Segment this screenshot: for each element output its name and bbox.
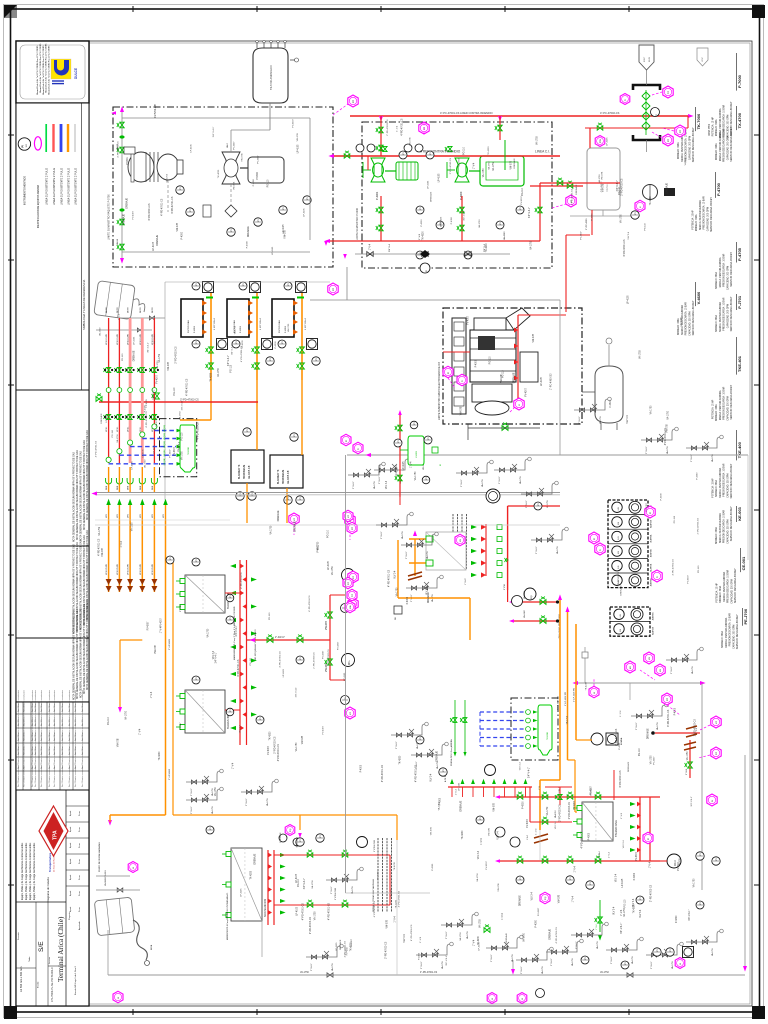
svg-text:Rev 0 Emision construccion: Rev 0 Emision construccion <box>17 765 20 787</box>
svg-text:P-4300: P-4300 <box>432 863 434 871</box>
svg-text:VA-1750: VA-1750 <box>620 214 623 223</box>
svg-text:LP-4105: LP-4105 <box>681 317 683 326</box>
svg-text:NO. BOQUILLAS VL. 3-4 ABAJO: NO. BOQUILLAS VL. 3-4 ABAJO <box>254 629 257 660</box>
svg-text:FV-4307: FV-4307 <box>170 449 172 458</box>
svg-text:1"-V-4: 1"-V-4 <box>151 691 153 698</box>
svg-text:TK-4230: TK-4230 <box>211 372 213 382</box>
svg-text:THERMO KING: THERMO KING <box>615 820 618 837</box>
svg-text:Aprob.: Aprob. <box>69 826 72 832</box>
svg-text:BICA: BICA <box>150 944 153 950</box>
svg-text:VW-07B: VW-07B <box>498 883 500 892</box>
svg-text:VA-1759: VA-1759 <box>546 806 549 815</box>
svg-text:LP-4105: LP-4105 <box>541 376 543 385</box>
svg-text:VA-1750: VA-1750 <box>287 323 290 332</box>
svg-text:P-4300: P-4300 <box>246 240 248 248</box>
svg-text:VW-07B: VW-07B <box>234 181 236 190</box>
svg-text:Rev 0 Emision construccion: Rev 0 Emision construccion <box>31 765 34 787</box>
svg-text:[4B][4B]: [4B][4B] <box>164 449 166 457</box>
svg-text:LP-4105-PD: LP-4105-PD <box>152 563 154 575</box>
svg-text:LP-4105: LP-4105 <box>458 782 460 791</box>
svg-text:VLV 3-4: VLV 3-4 <box>628 231 630 240</box>
svg-text:VW-07B: VW-07B <box>302 735 304 744</box>
svg-text:VW-07B: VW-07B <box>559 894 561 903</box>
svg-text:LP-4105: LP-4105 <box>427 180 429 189</box>
svg-text:1"-V-4: 1"-V-4 <box>621 909 623 916</box>
svg-text:TK-4230: TK-4230 <box>270 731 272 741</box>
svg-text:P-4300: P-4300 <box>592 213 594 221</box>
svg-text:2"-H-47: 2"-H-47 <box>180 722 182 730</box>
svg-text:3/4"-V-4-1": 3/4"-V-4-1" <box>232 344 234 355</box>
svg-text:LINEA GLP EXISTENTE 2 PULG: LINEA GLP EXISTENTE 2 PULG <box>46 168 49 205</box>
svg-text:Aprobado: Aprobado <box>78 920 81 930</box>
svg-text:Diagrama de Caneria: Diagrama de Caneria <box>46 877 50 902</box>
svg-text:VA-4303: VA-4303 <box>503 231 506 240</box>
svg-text:VA-2: VA-2 <box>226 143 229 148</box>
svg-text:P-4300: P-4300 <box>144 404 146 412</box>
svg-text:LP-4105: LP-4105 <box>397 467 399 476</box>
svg-text:3"-V-4-1": 3"-V-4-1" <box>576 941 578 949</box>
svg-text:DRENAJE: DRENAJE <box>279 832 282 843</box>
svg-text:1"-V-47: 1"-V-47 <box>465 578 467 585</box>
svg-text:VA-1759: VA-1759 <box>529 240 532 249</box>
svg-text:GE-4305 A/B: GE-4305 A/B <box>287 470 290 484</box>
svg-text:DE TK: DE TK <box>117 306 119 313</box>
svg-text:SERVICIO: DESCARGA JOCKEY: SERVICIO: DESCARGA JOCKEY <box>730 463 733 498</box>
svg-text:4"-PD-47001-CS: 4"-PD-47001-CS <box>345 941 347 958</box>
svg-text:de Gas del Norte: de Gas del Norte <box>53 855 56 872</box>
svg-text:VLV 3-4: VLV 3-4 <box>555 821 557 830</box>
svg-text:Equipo, Bahia y de Carga Gal.S: Equipo, Bahia y de Carga Gal.Sistema Con… <box>29 842 32 900</box>
svg-text:LINEA GLP EXISTENTE 2 PULG: LINEA GLP EXISTENTE 2 PULG <box>74 168 77 205</box>
svg-text:FQI: FQI <box>531 595 533 599</box>
svg-text:V-4305: V-4305 <box>416 450 418 458</box>
svg-text:LP-4105: LP-4105 <box>438 173 440 182</box>
svg-text:VA-1750: VA-1750 <box>206 628 209 637</box>
svg-text:Equipo, Bahia y de Carga Gal.S: Equipo, Bahia y de Carga Gal.Sistema Con… <box>21 842 24 900</box>
svg-text:ALARMA: ALARMA <box>652 626 655 635</box>
svg-text:1"-V-4: 1"-V-4 <box>481 838 483 845</box>
svg-text:3/4"-V-4-1": 3/4"-V-4-1" <box>236 625 238 636</box>
svg-text:VLV 3-4: VLV 3-4 <box>240 725 242 734</box>
svg-text:MARCA: PENTAIR AURORA: MARCA: PENTAIR AURORA <box>719 467 722 497</box>
svg-text:MIST: MIST <box>644 56 646 62</box>
svg-text:LIMITE SUMINISTRO GRUPO ELECTR: LIMITE SUMINISTRO GRUPO ELECTROGENO KE-0… <box>439 361 441 420</box>
svg-text:VA-1759: VA-1759 <box>481 478 484 487</box>
svg-text:MARCA: PENTAIR AURORA: MARCA: PENTAIR AURORA <box>699 200 702 230</box>
svg-text:4"-PD-47001-CS: 4"-PD-47001-CS <box>420 972 438 974</box>
svg-text:FV-5700-A/B: FV-5700-A/B <box>154 104 157 118</box>
svg-text:MARCA: PENTAIR AURORA: MARCA: PENTAIR AURORA <box>719 390 722 420</box>
svg-text:TK-5700 AMONIACO: TK-5700 AMONIACO <box>269 65 273 90</box>
svg-text:FV-4307: FV-4307 <box>160 617 162 626</box>
svg-text:VA-1750: VA-1750 <box>217 367 220 376</box>
svg-text:PRESION DESCARGA: 10 BAR: PRESION DESCARGA: 10 BAR <box>727 569 730 602</box>
svg-text:VA-1750: VA-1750 <box>295 742 298 751</box>
svg-text:HS: HS <box>618 507 620 511</box>
svg-text:MODELO: 344A: MODELO: 344A <box>677 318 680 335</box>
svg-text:SIMBOLOGIA Y LINEAS DE REFEREN: SIMBOLOGIA Y LINEAS DE REFERENCIA <box>82 280 86 330</box>
svg-text:Escala S/E Hoja 1 de 1 Rev 0: Escala S/E Hoja 1 de 1 Rev 0 <box>75 965 77 995</box>
svg-text:VLV 3-4: VLV 3-4 <box>497 831 499 840</box>
svg-text:DE TK: DE TK <box>152 306 154 313</box>
svg-text:2"-PD-47003-CS: 2"-PD-47003-CS <box>386 941 388 959</box>
svg-text:DRENAJE: DRENAJE <box>512 372 515 383</box>
svg-text:HS: HS <box>620 614 622 618</box>
svg-text:SERVICIO: DESCARGA JOCKEY: SERVICIO: DESCARGA JOCKEY <box>692 300 695 335</box>
svg-text:PG-110: PG-110 <box>298 878 300 886</box>
svg-text:DRENAJE: DRENAJE <box>519 895 522 906</box>
svg-text:4"-PD-47001-CS: 4"-PD-47001-CS <box>98 538 100 556</box>
svg-text:FILTRO GAS: FILTRO GAS <box>187 320 190 333</box>
svg-text:P-4300: P-4300 <box>589 832 591 840</box>
svg-text:4"-PD-47001-CS: 4"-PD-47001-CS <box>118 141 120 158</box>
svg-text:DRENAJE: DRENAJE <box>513 158 516 169</box>
svg-text:VW-07B: VW-07B <box>102 548 104 557</box>
svg-text:3/4"-V-4-1": 3/4"-V-4-1" <box>153 389 155 400</box>
svg-text:VLV 3-4: VLV 3-4 <box>640 909 642 918</box>
svg-text:VLV 3-4: VLV 3-4 <box>178 441 180 450</box>
svg-text:MX-4: MX-4 <box>674 860 677 866</box>
svg-text:CE-001: CE-001 <box>741 556 746 570</box>
svg-text:TK-4230: TK-4230 <box>422 231 424 241</box>
svg-text:VA-1750: VA-1750 <box>181 451 184 460</box>
svg-text:VLV 3-4: VLV 3-4 <box>615 873 617 882</box>
svg-text:DRENAJE: DRENAJE <box>549 928 552 939</box>
svg-text:PG-110: PG-110 <box>174 387 176 395</box>
svg-text:ALARMA: ALARMA <box>650 519 653 528</box>
svg-text:[4B][4B]: [4B][4B] <box>164 458 166 466</box>
svg-text:3/4"-V-4-1": 3/4"-V-4-1" <box>228 355 230 366</box>
svg-text:1"-V-4: 1"-V-4 <box>395 916 397 923</box>
svg-text:Shand-Cals S.A. Tel 271 2 3308: Shand-Cals S.A. Tel 271 2 33084 Fax 271 … <box>45 43 48 93</box>
svg-text:HIDRONEUM.: HIDRONEUM. <box>244 464 246 479</box>
svg-text:FILTRO GAS: FILTRO GAS <box>278 320 281 333</box>
svg-text:VLV 3-4: VLV 3-4 <box>520 762 522 771</box>
svg-text:LP-4105: LP-4105 <box>628 295 630 304</box>
svg-text:CAPACIDAD: 200 GPM: CAPACIDAD: 200 GPM <box>688 136 691 160</box>
svg-text:4"-PD-47001-CS: 4"-PD-47001-CS <box>399 890 401 907</box>
svg-text:VA-1759: VA-1759 <box>556 545 559 554</box>
svg-text:P-4300: P-4300 <box>676 915 678 923</box>
svg-text:P-4300: P-4300 <box>318 544 320 552</box>
svg-text:DRENAJE: DRENAJE <box>132 350 135 361</box>
svg-text:VW-07B: VW-07B <box>297 133 299 142</box>
svg-text:LINEA C.I.: LINEA C.I. <box>535 150 550 154</box>
svg-text:FV-4307: FV-4307 <box>653 756 655 765</box>
svg-text:2"-PD-47003-CS: 2"-PD-47003-CS <box>622 178 624 196</box>
svg-text:TK-4230: TK-4230 <box>251 870 253 880</box>
svg-text:LIMITE SUMINISTRO PAQUETE P-57: LIMITE SUMINISTRO PAQUETE P-5700 <box>108 194 111 240</box>
svg-text:VW-07B: VW-07B <box>493 803 495 812</box>
svg-text:LINEA GLP EXISTENTE 2 PULG: LINEA GLP EXISTENTE 2 PULG <box>53 168 56 205</box>
svg-text:SERVICIO: DESCARGA JOCKEY: SERVICIO: DESCARGA JOCKEY <box>730 126 733 161</box>
svg-text:SERVICIO: DESCARGA JOCKEY: SERVICIO: DESCARGA JOCKEY <box>710 197 713 232</box>
svg-text:HIDRONEUM.: HIDRONEUM. <box>283 469 285 484</box>
svg-text:VA-1759: VA-1759 <box>211 805 214 814</box>
svg-text:LP-4105: LP-4105 <box>153 241 155 250</box>
svg-text:LPG: LPG <box>140 514 142 518</box>
svg-text:3"-V-4-1": 3"-V-4-1" <box>611 956 613 964</box>
svg-text:FV-4307: FV-4307 <box>538 907 540 916</box>
svg-text:2"-PD-47003-CS: 2"-PD-47003-CS <box>314 652 316 669</box>
svg-text:LP-4105: LP-4105 <box>303 208 305 217</box>
svg-text:MARCA: PENTAIR AURORA: MARCA: PENTAIR AURORA <box>719 301 722 331</box>
svg-text:PRESION DESCARGA: 10 BAR: PRESION DESCARGA: 10 BAR <box>723 297 726 330</box>
svg-text:DIESEL: DIESEL <box>606 183 609 192</box>
svg-text:Aprob.: Aprob. <box>69 842 72 848</box>
svg-text:LSH: LSH <box>350 605 352 609</box>
svg-text:VW-07B: VW-07B <box>511 161 513 170</box>
svg-text:FV-4307: FV-4307 <box>148 621 150 630</box>
svg-text:4"-PD-47001-CS: 4"-PD-47001-CS <box>329 902 331 920</box>
svg-text:VA-1759: VA-1759 <box>331 962 334 971</box>
svg-text:VA-1759: VA-1759 <box>99 327 102 336</box>
svg-text:CAPACIDAD: 200 GPM: CAPACIDAD: 200 GPM <box>730 579 733 603</box>
svg-text:2"-PD-47003-CS: 2"-PD-47003-CS <box>616 728 618 746</box>
svg-text:Shand-Cals S.A. Tel 271 2 3308: Shand-Cals S.A. Tel 271 2 33084 Fax 271 … <box>42 45 45 95</box>
svg-text:VA-4307: VA-4307 <box>523 590 526 599</box>
svg-text:FV-4307: FV-4307 <box>486 861 488 870</box>
svg-text:VLV 3-4: VLV 3-4 <box>685 157 687 166</box>
svg-text:3/4"-V-4-1": 3/4"-V-4-1" <box>689 910 691 921</box>
svg-text:DRENAJE: DRENAJE <box>247 226 250 237</box>
svg-text:MARCA: PENTAIR AURORA: MARCA: PENTAIR AURORA <box>725 617 728 647</box>
svg-text:M: M <box>440 464 442 466</box>
svg-text:VA-1759: VA-1759 <box>211 787 214 796</box>
svg-text:VLV 3-4: VLV 3-4 <box>404 934 406 943</box>
svg-text:LP-4101-PD: LP-4101-PD <box>140 333 142 345</box>
svg-text:VA-1759: VA-1759 <box>116 434 119 443</box>
svg-text:VA-1759: VA-1759 <box>165 173 168 182</box>
svg-text:1"-V-4: 1"-V-4 <box>420 936 422 943</box>
svg-text:POTENCIA: 15 HP: POTENCIA: 15 HP <box>712 478 715 498</box>
svg-text:LP-4105-PD: LP-4105-PD <box>128 563 130 575</box>
svg-text:VA-1759: VA-1759 <box>311 880 314 889</box>
svg-text:Rev 0 Emision construccion: Rev 0 Emision construccion <box>68 765 71 787</box>
svg-text:3"-V-4-1": 3"-V-4-1" <box>536 546 538 554</box>
svg-text:VA-04: VA-04 <box>116 238 119 245</box>
svg-text:DRE: DRE <box>106 485 108 490</box>
svg-text:SKID MEDICION: SKID MEDICION <box>264 899 267 917</box>
svg-text:CAPACIDAD: 200 GPM: CAPACIDAD: 200 GPM <box>732 625 735 649</box>
svg-text:A1 594 mm x 841 mm: A1 594 mm x 841 mm <box>19 967 23 992</box>
svg-text:4"-PD-47001-CS: 4"-PD-47001-CS <box>302 903 304 921</box>
svg-text:VW-07B: VW-07B <box>168 362 170 371</box>
svg-text:MODELO: 344A: MODELO: 344A <box>721 631 724 648</box>
svg-text:LPG: LPG <box>128 514 130 518</box>
svg-text:KE-003: KE-003 <box>737 506 742 520</box>
svg-text:2"-PD-47003-CS: 2"-PD-47003-CS <box>310 916 312 934</box>
svg-text:FV-4307: FV-4307 <box>527 818 529 827</box>
svg-text:MODELO: 344A: MODELO: 344A <box>719 585 722 602</box>
svg-text:2"-H-47: 2"-H-47 <box>180 604 182 612</box>
svg-text:Shand-Cals S.A. Tel 271 2 3308: Shand-Cals S.A. Tel 271 2 33084 Fax 271 … <box>36 45 39 95</box>
svg-text:4"-PD-47001-CS: 4"-PD-47001-CS <box>198 422 200 440</box>
svg-text:PURGA TKS 1 Freq ARRIBA: PURGA TKS 1 Freq ARRIBA <box>450 739 453 766</box>
svg-text:2"-PD-47003-CS: 2"-PD-47003-CS <box>618 572 620 589</box>
svg-text:PI: PI <box>22 145 25 148</box>
svg-text:TK-DRE: TK-DRE <box>188 446 190 455</box>
svg-text:LP-4105: LP-4105 <box>403 461 405 470</box>
svg-text:P-4300: P-4300 <box>407 596 409 604</box>
svg-text:P-4300: P-4300 <box>696 472 698 480</box>
svg-text:FQI: FQI <box>290 828 292 832</box>
svg-text:DE TK: DE TK <box>106 306 108 313</box>
svg-text:[4B][4B]: [4B][4B] <box>164 432 166 440</box>
svg-text:HS: HS <box>618 536 620 540</box>
svg-text:3"-V-4-1": 3"-V-4-1" <box>381 531 383 539</box>
svg-text:2"-LP-4107-PD: 2"-LP-4107-PD <box>565 691 567 706</box>
svg-text:HS: HS <box>618 565 620 569</box>
svg-text:PG-110: PG-110 <box>489 356 491 364</box>
svg-text:VA-1750: VA-1750 <box>155 417 158 426</box>
svg-text:VA-1759: VA-1759 <box>373 480 376 489</box>
svg-text:PG-110: PG-110 <box>503 370 505 378</box>
svg-text:DRENAJE: DRENAJE <box>459 800 462 811</box>
svg-text:VA-1759: VA-1759 <box>666 445 669 454</box>
svg-text:Terminal Arica (Chile): Terminal Arica (Chile) <box>57 916 65 982</box>
svg-text:PRESION DESCARGA: 10 BAR: PRESION DESCARGA: 10 BAR <box>703 196 706 229</box>
svg-text:4"-PD-47001-CS: 4"-PD-47001-CS <box>95 440 97 457</box>
svg-text:1"-V-4: 1"-V-4 <box>232 762 234 769</box>
svg-text:LP-4105: LP-4105 <box>297 906 299 915</box>
svg-text:Formato:: Formato: <box>17 932 20 940</box>
svg-text:VA-1759: VA-1759 <box>466 930 469 939</box>
svg-text:Aprob.: Aprob. <box>69 858 72 864</box>
svg-text:VA-1750: VA-1750 <box>457 158 460 167</box>
svg-text:1"-V: 1"-V <box>539 786 541 790</box>
svg-text:4"-PD-47001-CS: 4"-PD-47001-CS <box>278 744 280 762</box>
svg-text:F-4301: F-4301 <box>194 325 196 333</box>
svg-text:DRE: DRE <box>117 485 119 490</box>
svg-text:PG-110: PG-110 <box>463 146 465 154</box>
svg-text:4"-PD-47001-CS: 4"-PD-47001-CS <box>238 659 240 677</box>
svg-text:SERVICIO: DESCARGA JOCKEY: SERVICIO: DESCARGA JOCKEY <box>730 252 733 287</box>
svg-text:P-4300: P-4300 <box>675 707 677 715</box>
svg-text:1"-V-4: 1"-V-4 <box>121 540 123 547</box>
svg-text:VA-1752: VA-1752 <box>600 971 609 974</box>
svg-text:FV-4307: FV-4307 <box>351 938 353 947</box>
svg-text:MODELO: 344A: MODELO: 344A <box>715 272 718 289</box>
svg-text:1"-V-4: 1"-V-4 <box>574 865 576 872</box>
svg-text:PRESION DESCARGA: 10 BAR: PRESION DESCARGA: 10 BAR <box>685 302 688 335</box>
svg-text:Equipo, Bahia y de Carga Gal.S: Equipo, Bahia y de Carga Gal.Sistema Con… <box>33 842 36 900</box>
svg-text:VW-07B: VW-07B <box>118 738 120 747</box>
svg-text:DRENAJE: DRENAJE <box>339 939 342 950</box>
svg-text:TKE-401: TKE-401 <box>737 355 742 372</box>
svg-text:VA-0905 PG-110: VA-0905 PG-110 <box>104 870 107 886</box>
svg-text:Escala:: Escala: <box>38 981 40 988</box>
svg-text:1"-V-4: 1"-V-4 <box>419 233 421 240</box>
svg-text:VA-1759: VA-1759 <box>599 415 602 424</box>
svg-text:1"-V-4: 1"-V-4 <box>536 828 538 835</box>
svg-text:MARCA: PENTAIR AURORA: MARCA: PENTAIR AURORA <box>719 131 722 161</box>
svg-text:4"-PD-47001-CS: 4"-PD-47001-CS <box>411 924 413 941</box>
svg-text:4"-PD-47001-CS: 4"-PD-47001-CS <box>624 239 626 257</box>
svg-text:3"-V-4-1": 3"-V-4-1" <box>331 886 333 894</box>
svg-text:2"-PD-47003-CS: 2"-PD-47003-CS <box>450 157 452 174</box>
svg-text:FV-4307: FV-4307 <box>258 155 260 164</box>
svg-text:VA-1750: VA-1750 <box>650 405 653 414</box>
svg-text:VLV 3-4: VLV 3-4 <box>203 327 205 336</box>
svg-text:PG-110: PG-110 <box>108 716 110 724</box>
svg-text:NOTA GENERAL DE INSTALACION SE: NOTA GENERAL DE INSTALACION SEGUN NORMA … <box>73 610 76 700</box>
svg-text:BLADDER TK: BLADDER TK <box>277 469 280 484</box>
svg-text:LP-4105-PD: LP-4105-PD <box>117 563 119 575</box>
svg-text:3/4"-V-4-1": 3/4"-V-4-1" <box>621 923 623 934</box>
svg-text:3"-V-4-1": 3"-V-4-1" <box>551 958 553 966</box>
svg-text:MODELO: 344A: MODELO: 344A <box>677 142 680 159</box>
svg-text:TX-4700: TX-4700 <box>737 112 742 128</box>
svg-text:2"-PD-47003-CS: 2"-PD-47003-CS <box>651 884 653 902</box>
svg-text:3/4"-V-4-1": 3/4"-V-4-1" <box>304 878 306 889</box>
svg-text:P-4300: P-4300 <box>661 493 663 501</box>
svg-text:CAPACIDAD: 200 GPM: CAPACIDAD: 200 GPM <box>726 304 729 328</box>
svg-text:FV-4307: FV-4307 <box>323 650 325 659</box>
svg-text:VLV 3-4: VLV 3-4 <box>426 586 428 595</box>
svg-text:VA-1750: VA-1750 <box>478 219 481 228</box>
svg-text:MODELO: 344A: MODELO: 344A <box>715 315 718 332</box>
svg-text:LPG: LPG <box>106 514 108 518</box>
svg-text:MARCA: PENTAIR AURORA: MARCA: PENTAIR AURORA <box>719 513 722 543</box>
svg-text:2"-SI-4: 2"-SI-4 <box>686 768 688 775</box>
svg-text:2"-PD-47003-CS: 2"-PD-47003-CS <box>569 802 571 820</box>
svg-text:3/4"-V-4: 3/4"-V-4 <box>389 243 391 252</box>
svg-text:PG-110: PG-110 <box>250 657 252 665</box>
svg-text:P-4300: P-4300 <box>275 341 277 349</box>
svg-text:NOTA GENERAL DE INSTALACION SE: NOTA GENERAL DE INSTALACION SEGUN NORMA … <box>80 608 83 698</box>
svg-text:4"-PD-47001-CS: 4"-PD-47001-CS <box>673 559 675 576</box>
svg-text:LP-4105: LP-4105 <box>241 888 243 897</box>
svg-text:CAPACIDAD: 200 GPM: CAPACIDAD: 200 GPM <box>706 207 709 231</box>
svg-text:PG-110: PG-110 <box>624 899 626 907</box>
svg-text:SERVICIO: DESCARGA JOCKEY: SERVICIO: DESCARGA JOCKEY <box>730 506 733 541</box>
svg-text:1"-V-4: 1"-V-4 <box>410 461 412 468</box>
svg-text:PRESION DESCARGA: 10 BAR: PRESION DESCARGA: 10 BAR <box>723 463 726 496</box>
svg-text:VW-07B: VW-07B <box>387 920 389 929</box>
svg-text:P-5700: P-5700 <box>256 172 259 180</box>
svg-text:VA-1759: VA-1759 <box>270 525 273 534</box>
svg-text:VA-1750: VA-1750 <box>693 878 696 887</box>
svg-text:NOTA GENERAL DE INSTALACION SE: NOTA GENERAL DE INSTALACION SEGUN NORMA … <box>80 451 83 541</box>
svg-text:P-4300: P-4300 <box>451 216 453 224</box>
svg-text:2"-PD-47003-CS: 2"-PD-47003-CS <box>387 119 389 136</box>
svg-text:P-4300: P-4300 <box>634 872 636 880</box>
svg-text:3"-V-4-1": 3"-V-4-1" <box>191 806 193 814</box>
svg-text:P-4300: P-4300 <box>419 952 421 960</box>
svg-text:LP-4101-PD: LP-4101-PD <box>117 333 119 345</box>
svg-text:VA-1759: VA-1759 <box>426 550 429 559</box>
svg-text:4"-PD-47001-CS: 4"-PD-47001-CS <box>309 595 311 612</box>
svg-text:VA-1759: VA-1759 <box>479 919 482 928</box>
svg-text:PRESION DESCARGA: 10 BAR: PRESION DESCARGA: 10 BAR <box>723 386 726 419</box>
svg-text:MODELO: 344A: MODELO: 344A <box>695 214 698 231</box>
svg-text:VA-1759: VA-1759 <box>233 325 236 334</box>
svg-text:VLV 3-4: VLV 3-4 <box>614 906 616 915</box>
svg-text:PRESION DESCARGA: 10 BAR: PRESION DESCARGA: 10 BAR <box>723 510 726 543</box>
svg-text:[4B][4B]: [4B][4B] <box>164 441 166 449</box>
svg-text:3"-V-4-1": 3"-V-4-1" <box>461 479 463 487</box>
svg-text:VLV 3-4: VLV 3-4 <box>627 415 629 424</box>
svg-text:CAPACIDAD: 200 GPM: CAPACIDAD: 200 GPM <box>726 474 729 498</box>
svg-text:F-4301: F-4301 <box>285 325 287 333</box>
svg-text:2"-PD-47003-CS: 2"-PD-47003-CS <box>560 804 562 822</box>
svg-text:VW-07B: VW-07B <box>241 153 243 162</box>
svg-text:4"-PD-47001-CS: 4"-PD-47001-CS <box>146 411 148 428</box>
svg-text:2"-LP-4106: 2"-LP-4106 <box>169 768 171 780</box>
svg-text:P-4700: P-4700 <box>716 182 721 196</box>
svg-text:P-4300: P-4300 <box>391 889 393 897</box>
